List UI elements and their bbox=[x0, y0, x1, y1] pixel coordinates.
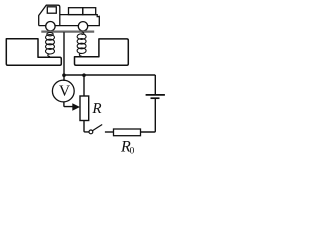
battery short plate bbox=[151, 97, 160, 99]
truck bed top line bbox=[60, 15, 100, 17]
slider arrow into R bbox=[72, 103, 80, 111]
resistor R body bbox=[80, 96, 89, 121]
node B junction dot bbox=[82, 73, 86, 77]
wire battery up to top rail bbox=[154, 75, 156, 94]
spring left bbox=[46, 33, 55, 57]
wire R0 to bottom right corner and up bbox=[141, 99, 156, 132]
wire switch to R0 bbox=[105, 131, 114, 133]
left support block bbox=[6, 39, 61, 66]
wire node A to voltmeter top bbox=[63, 75, 65, 81]
truck cargo box 1 bbox=[69, 8, 83, 15]
wire node B down to resistor R bbox=[83, 75, 85, 96]
voltmeter V bbox=[52, 80, 74, 102]
switch lever bbox=[92, 125, 102, 131]
switch pivot circle bbox=[89, 130, 93, 134]
label R bbox=[92, 103, 101, 113]
label R0 bbox=[121, 141, 131, 151]
battery long plate bbox=[146, 94, 165, 96]
right support block bbox=[75, 39, 129, 65]
truck chassis bottom line bbox=[39, 16, 100, 26]
top wire from node A to right corner bbox=[64, 74, 155, 76]
wire R bottom to switch bbox=[84, 121, 89, 132]
truck front wheel bbox=[46, 22, 55, 31]
wire from platform down to node A bbox=[63, 32, 65, 75]
wire voltmeter bottom to slider arrow bbox=[64, 102, 73, 107]
platform plate on springs bbox=[41, 31, 94, 33]
truck rear wheel bbox=[78, 22, 87, 31]
node A junction dot bbox=[62, 73, 66, 77]
resistor R0 body bbox=[114, 129, 141, 136]
truck cargo box 2 bbox=[83, 8, 96, 15]
truck cab window bbox=[47, 7, 56, 13]
spring right bbox=[77, 32, 86, 56]
truck cab body bbox=[39, 5, 60, 25]
